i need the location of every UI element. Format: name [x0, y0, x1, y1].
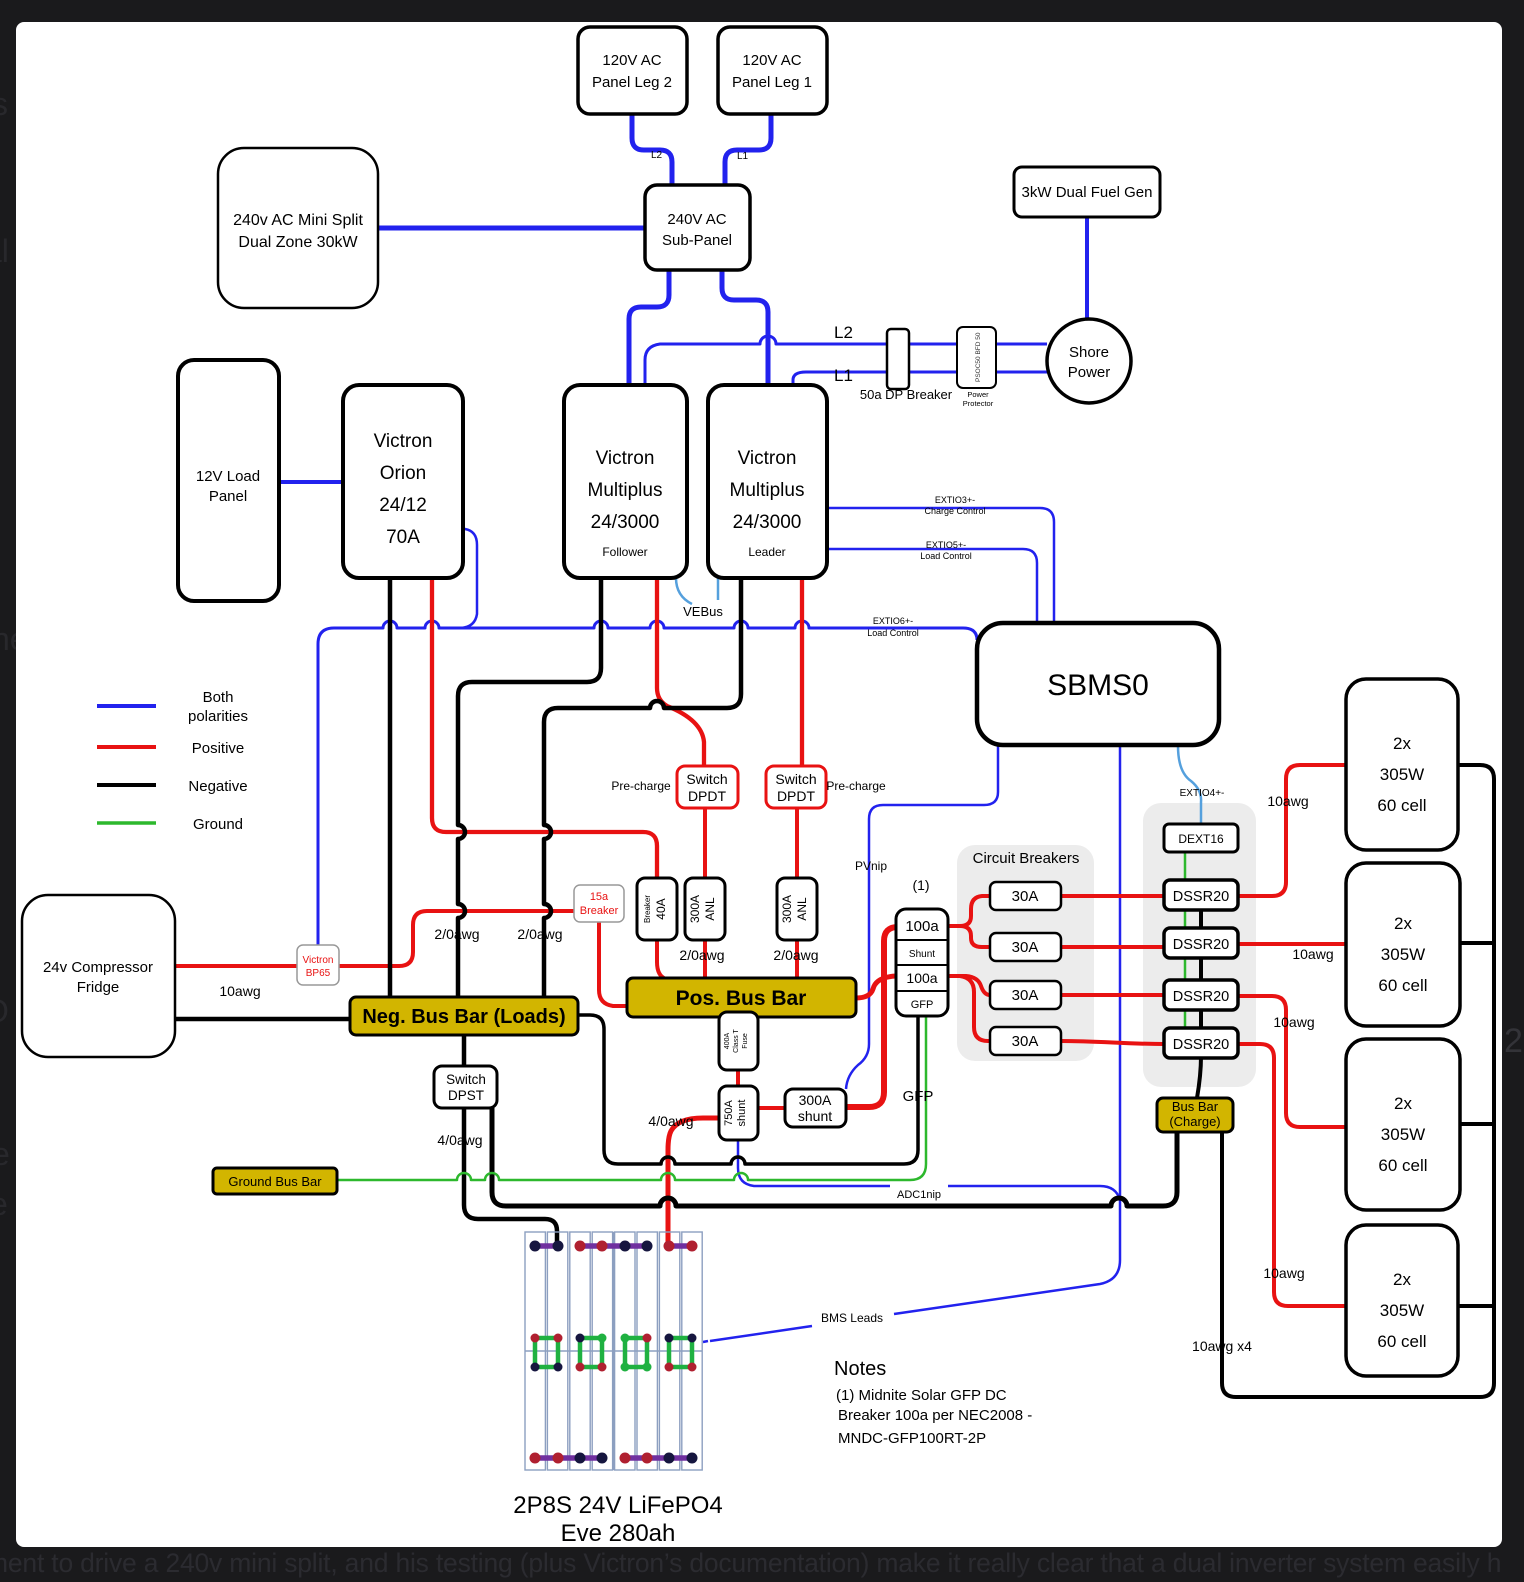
- wire switch DPDT 2 to 300A ANL 2: [795, 808, 799, 878]
- svg-text:Load Control: Load Control: [867, 628, 919, 638]
- wire Orion negative to Neg bus bar: [388, 578, 393, 997]
- svg-text:240v AC Mini Split: 240v AC Mini Split: [233, 212, 363, 229]
- wire Leader negative to Neg bus bar: [544, 578, 741, 997]
- svg-text:DPST: DPST: [448, 1088, 484, 1103]
- svg-text:100a: 100a: [906, 970, 937, 986]
- wire Neg bus bar to switch DPST: [462, 1035, 467, 1066]
- svg-text:L2: L2: [834, 323, 853, 342]
- box 300A shunt: [785, 1089, 846, 1127]
- svg-text:Panel Leg 2: Panel Leg 2: [592, 74, 672, 91]
- svg-text:DPDT: DPDT: [777, 788, 816, 804]
- wire DSSR20 2 to panel 2: [1238, 942, 1346, 946]
- box Ground Bus Bar: [213, 1168, 337, 1194]
- svg-text:24v Compressor: 24v Compressor: [43, 959, 153, 976]
- svg-text:EXTIO4+-: EXTIO4+-: [1180, 788, 1225, 799]
- svg-text:Eve 280ah: Eve 280ah: [561, 1520, 676, 1547]
- svg-text:EXTIO3+-: EXTIO3+-: [935, 495, 975, 505]
- svg-text:GFP: GFP: [911, 999, 934, 1011]
- box solar panel 3: [1346, 1039, 1460, 1210]
- box 24v Compressor Fridge: [22, 895, 175, 1057]
- wire Pos bus bar to 100a battery input: [856, 976, 896, 998]
- svg-text:MNDC-GFP100RT-2P: MNDC-GFP100RT-2P: [838, 1430, 986, 1447]
- svg-text:2x: 2x: [1393, 734, 1411, 753]
- box 12V Load Panel: [178, 360, 279, 601]
- wire switch DPDT 1 to 300A ANL 1: [703, 808, 707, 878]
- box switch DPST: [434, 1066, 497, 1108]
- svg-text:BMS Leads: BMS Leads: [821, 1311, 883, 1325]
- svg-text:400A: 400A: [724, 1033, 731, 1050]
- wire switch DPST to charge bus bar (battery negative charge path): [492, 1108, 1177, 1206]
- wire 750A shunt to battery positive: [668, 1118, 719, 1245]
- svg-text:DSSR20: DSSR20: [1173, 937, 1229, 953]
- box 15a Breaker: [574, 885, 624, 922]
- svg-text:Fuse: Fuse: [742, 1033, 749, 1049]
- wire L1 shore line to Leader: [793, 372, 1047, 385]
- wire 40A breaker to Pos bus bar: [657, 940, 668, 984]
- box 120V AC Panel Leg 2: [578, 27, 687, 114]
- svg-text:Positive: Positive: [192, 740, 245, 757]
- wire switch DPST to battery negative: [464, 1108, 557, 1246]
- battery terminal dots: [530, 1241, 698, 1464]
- svg-text:al: al: [0, 233, 9, 269]
- svg-text:240V AC: 240V AC: [667, 211, 726, 228]
- battery 2P8S cell grid: [525, 1232, 702, 1470]
- svg-text:DSSR20: DSSR20: [1173, 1037, 1229, 1053]
- svg-text:60 cell: 60 cell: [1378, 976, 1427, 995]
- box Power Protector: [957, 327, 996, 388]
- svg-text:100a: 100a: [905, 918, 939, 935]
- svg-text:2/0awg: 2/0awg: [679, 947, 724, 963]
- wire Orion positive to 40A breaker: [432, 578, 657, 878]
- svg-text:30A: 30A: [1012, 987, 1039, 1004]
- svg-text:Switch: Switch: [446, 1072, 486, 1087]
- svg-text:300A: 300A: [780, 895, 794, 923]
- wire EXTIO4 to DEXT16 (light blue): [1178, 746, 1201, 824]
- svg-text:BP65: BP65: [306, 968, 331, 979]
- box 100a shunt 100a GFP column: [896, 909, 948, 1016]
- box DSSR20 1: [1164, 880, 1238, 910]
- svg-text:Pre-charge: Pre-charge: [611, 779, 671, 793]
- svg-text:Multiplus: Multiplus: [588, 480, 663, 501]
- svg-text:Victron: Victron: [374, 431, 433, 452]
- svg-text:Breaker: Breaker: [580, 905, 619, 917]
- svg-text:GFP: GFP: [903, 1088, 934, 1105]
- svg-text:DSSR20: DSSR20: [1173, 889, 1229, 905]
- svg-text:Circuit Breakers: Circuit Breakers: [973, 850, 1080, 867]
- svg-text:Victron: Victron: [596, 448, 655, 469]
- wire 30A 3 to DSSR20 3: [1061, 993, 1164, 997]
- wire charge bus bar to solar panel negatives: [1222, 765, 1494, 1397]
- svg-text:ADC1nip: ADC1nip: [897, 1189, 941, 1201]
- svg-text:Power: Power: [1068, 364, 1111, 381]
- svg-text:10awg: 10awg: [1263, 1265, 1304, 1281]
- svg-text:4/0awg: 4/0awg: [648, 1113, 693, 1129]
- wire Neg bus bar to GFP breaker: [578, 1014, 918, 1164]
- wire 100a battery to 30A breaker 3: [948, 976, 990, 995]
- svg-text:120V AC: 120V AC: [602, 52, 661, 69]
- wire VEBus link a: [676, 578, 692, 604]
- svg-text:Load Control: Load Control: [920, 551, 972, 561]
- box switch DPDT 1: [677, 766, 738, 808]
- wire fridge positive to BP65: [175, 964, 297, 968]
- wire 300A ANL 1 to Pos bus bar: [703, 940, 707, 980]
- wire sub-panel to Multiplus Leader AC out: [722, 270, 768, 385]
- svg-text:PVnip: PVnip: [855, 859, 887, 873]
- svg-text:PSOC50 BFD 50: PSOC50 BFD 50: [975, 332, 982, 382]
- svg-text:Switch: Switch: [686, 771, 727, 787]
- wire DSSR20 3 to panel 3: [1238, 996, 1346, 1127]
- svg-text:Fridge: Fridge: [77, 979, 120, 996]
- svg-text:10awg x4: 10awg x4: [1192, 1338, 1252, 1354]
- box DSSR20 4: [1164, 1028, 1238, 1058]
- svg-text:305W: 305W: [1381, 945, 1425, 964]
- svg-text:Victron: Victron: [303, 955, 334, 966]
- svg-text:(1): (1): [912, 877, 929, 893]
- svg-text:30A: 30A: [1012, 939, 1039, 956]
- box 30A breaker 1: [990, 882, 1061, 910]
- wire 30A 4 to DSSR20 4: [1061, 1041, 1164, 1044]
- box 750A shunt: [719, 1086, 758, 1140]
- svg-text:24/3000: 24/3000: [591, 512, 660, 533]
- battery bottom bus links (purple): [535, 1455, 692, 1461]
- wire generator to shore power: [1085, 217, 1089, 319]
- svg-text:2x: 2x: [1394, 914, 1412, 933]
- svg-text:shunt: shunt: [798, 1108, 832, 1124]
- svg-text:Class T: Class T: [733, 1028, 740, 1052]
- wire 300A ANL 2 to Pos bus bar: [795, 940, 799, 980]
- wire 12V load panel to Orion: [279, 480, 343, 484]
- svg-text:10awg: 10awg: [1273, 1014, 1314, 1030]
- battery top bus links (purple): [535, 1243, 692, 1249]
- box Bus Bar (Charge): [1157, 1098, 1233, 1132]
- svg-text:Charge Control: Charge Control: [924, 506, 985, 516]
- svg-text:2x: 2x: [1393, 1270, 1411, 1289]
- box 3kW Dual Fuel Gen: [1014, 167, 1160, 217]
- svg-text:300A: 300A: [799, 1092, 832, 1108]
- svg-text:DEXT16: DEXT16: [1178, 832, 1224, 846]
- svg-text:EXTIO5+-: EXTIO5+-: [926, 540, 966, 550]
- svg-text:2/0awg: 2/0awg: [773, 947, 818, 963]
- svg-text:Power: Power: [967, 390, 989, 399]
- svg-text:Dual Zone 30kW: Dual Zone 30kW: [238, 234, 358, 251]
- svg-text:ANL: ANL: [703, 897, 717, 921]
- svg-text:L1: L1: [834, 366, 853, 385]
- gray panel: DSSR20 group: [1143, 803, 1256, 1087]
- wire 300A shunt to 100a PV input (thick): [846, 927, 898, 1107]
- svg-text:Switch: Switch: [775, 771, 816, 787]
- svg-text:Breaker 100a per NEC2008 -: Breaker 100a per NEC2008 -: [838, 1407, 1032, 1424]
- svg-text:ment to drive a 240v mini spli: ment to drive a 240v mini split, and his…: [0, 1548, 1501, 1578]
- wire PVnip SBMS0 to 300A shunt: [846, 745, 998, 1089]
- svg-text:Protector: Protector: [963, 399, 994, 408]
- box solar panel 4: [1346, 1225, 1458, 1376]
- svg-text:shunt: shunt: [736, 1100, 748, 1127]
- svg-text:DPDT: DPDT: [688, 788, 727, 804]
- svg-text:Pos. Bus Bar: Pos. Bus Bar: [676, 987, 807, 1010]
- box DEXT16: [1164, 824, 1238, 852]
- svg-text:EXTIO6+-: EXTIO6+-: [873, 616, 913, 626]
- box Pos Bus Bar: [627, 978, 856, 1017]
- svg-text:Ground Bus Bar: Ground Bus Bar: [228, 1174, 322, 1189]
- svg-text:2: 2: [1504, 1022, 1523, 1060]
- wire DSSR20 1 to panel 1: [1238, 765, 1346, 896]
- box Victron Orion 24/12 70A: [343, 385, 463, 578]
- box DSSR20 2: [1164, 928, 1238, 958]
- svg-text:Bus Bar: Bus Bar: [1172, 1099, 1219, 1114]
- gray panel: Circuit Breakers group: [957, 845, 1094, 1061]
- svg-text:10awg: 10awg: [219, 983, 260, 999]
- svg-text:O: O: [0, 993, 9, 1029]
- svg-text:2/0awg: 2/0awg: [434, 926, 479, 942]
- svg-text:12V Load: 12V Load: [196, 468, 260, 485]
- legend line positive: [97, 745, 156, 749]
- svg-text:30A: 30A: [1012, 1033, 1039, 1050]
- wire EXTIO5 load control: [827, 549, 1037, 623]
- svg-text:2P8S 24V LiFePO4: 2P8S 24V LiFePO4: [513, 1492, 722, 1519]
- wire EXTIO3 charge control: [827, 508, 1054, 623]
- svg-text:50a DP Breaker: 50a DP Breaker: [860, 387, 953, 402]
- wire ground bus bar to GFP (green): [337, 1014, 926, 1180]
- wire 100a battery to 30A breaker 4: [948, 976, 990, 1041]
- wire SBMS0 main blue vertical + BMS leads diagonal: [703, 745, 1120, 1342]
- svg-text:s: s: [0, 86, 8, 122]
- wire Leader positive to switch DPDT 2: [800, 578, 804, 766]
- wire EXTIO6 load control bus (BP65 riser + horizontal to SBMS0): [318, 621, 977, 945]
- box 120V AC Panel Leg 1: [718, 27, 827, 114]
- box 400A Class T Fuse: [719, 1012, 758, 1070]
- svg-text:polarities: polarities: [188, 708, 248, 725]
- svg-text:10awg: 10awg: [1267, 793, 1308, 809]
- svg-text:305W: 305W: [1380, 765, 1424, 784]
- svg-text:e: e: [0, 1186, 8, 1222]
- box 30A breaker 4: [990, 1027, 1061, 1055]
- svg-text:Victron: Victron: [738, 448, 797, 469]
- svg-text:2/0awg: 2/0awg: [517, 926, 562, 942]
- wire DSSR20 4 to panel 4: [1238, 1044, 1346, 1306]
- box 300A ANL 1: [685, 878, 725, 940]
- svg-text:SBMS0: SBMS0: [1047, 669, 1149, 702]
- wire 30A 2 to DSSR20 2: [1061, 945, 1164, 949]
- svg-text:e: e: [0, 1136, 10, 1172]
- svg-text:Ground: Ground: [193, 816, 243, 833]
- wire fridge negative to Neg bus bar: [175, 1017, 350, 1022]
- faint background glyphs left edge: [0, 86, 28, 1222]
- legend line both polarities: [97, 704, 156, 708]
- box 30A breaker 3: [990, 981, 1061, 1009]
- legend line ground: [97, 821, 156, 825]
- svg-text:2x: 2x: [1394, 1094, 1412, 1113]
- wire Follower positive to switch DPDT 1: [657, 578, 704, 766]
- svg-text:4/0awg: 4/0awg: [437, 1132, 482, 1148]
- legend line negative: [97, 783, 156, 787]
- box 240V AC Sub-Panel: [645, 185, 750, 270]
- svg-text:305W: 305W: [1381, 1125, 1425, 1144]
- wire mini-split to sub-panel: [378, 226, 645, 231]
- box 30A breaker 2: [990, 933, 1061, 961]
- wire 30A 1 to DSSR20 1: [1061, 894, 1164, 898]
- svg-text:70A: 70A: [386, 527, 420, 548]
- box Neg Bus Bar (Loads): [350, 997, 578, 1035]
- svg-text:120V AC: 120V AC: [742, 52, 801, 69]
- svg-text:15a: 15a: [590, 891, 609, 903]
- wire Follower negative to Neg bus bar: [458, 578, 601, 997]
- wire Orion blue branch to EXTIO6 bus: [461, 529, 477, 628]
- wire 100a PV to 30A breaker 1: [948, 896, 990, 926]
- box 40A breaker: [637, 878, 677, 940]
- svg-text:30A: 30A: [1012, 888, 1039, 905]
- svg-text:305W: 305W: [1380, 1301, 1424, 1320]
- svg-text:(Charge): (Charge): [1169, 1114, 1220, 1129]
- box 50a DP Breaker: [887, 329, 909, 389]
- svg-text:Neg. Bus Bar (Loads): Neg. Bus Bar (Loads): [362, 1006, 565, 1028]
- wire L2 shore line to Follower: [645, 336, 1047, 385]
- battery balance link squares (green): [535, 1338, 692, 1367]
- svg-text:Multiplus: Multiplus: [730, 480, 805, 501]
- box switch DPDT 2: [766, 766, 826, 808]
- svg-text:24/3000: 24/3000: [733, 512, 802, 533]
- svg-text:3kW Dual Fuel Gen: 3kW Dual Fuel Gen: [1022, 184, 1153, 201]
- svg-text:DSSR20: DSSR20: [1173, 989, 1229, 1005]
- wire sub-panel to Multiplus Follower AC out: [629, 270, 669, 385]
- svg-text:60 cell: 60 cell: [1378, 1156, 1427, 1175]
- svg-text:40A: 40A: [654, 898, 668, 919]
- box solar panel 2: [1346, 863, 1460, 1026]
- svg-text:Pre-charge: Pre-charge: [826, 779, 886, 793]
- box Victron Multiplus Follower: [564, 385, 687, 578]
- wire AC leg1 to sub-panel: [725, 114, 771, 185]
- svg-text:Notes: Notes: [834, 1358, 886, 1380]
- wire DEXT16 green chain: [1184, 852, 1187, 1028]
- svg-text:(1) Midnite Solar GFP DC: (1) Midnite Solar GFP DC: [836, 1387, 1007, 1404]
- box SBMS0: [977, 623, 1219, 745]
- box 240v AC Mini Split: [218, 148, 378, 308]
- svg-text:Both: Both: [203, 689, 234, 706]
- wire 750A shunt to 300A shunt: [758, 1106, 785, 1110]
- box Victron BP65: [297, 945, 339, 985]
- svg-text:Leader: Leader: [748, 545, 785, 559]
- wire DSSR20 chain negatives: [1197, 910, 1201, 1098]
- box DSSR20 3: [1164, 980, 1238, 1010]
- svg-text:Sub-Panel: Sub-Panel: [662, 232, 732, 249]
- svg-text:Panel: Panel: [209, 488, 247, 505]
- svg-text:L2: L2: [651, 150, 663, 161]
- wire 100a PV to 30A breaker 2: [948, 926, 990, 947]
- wire VEBus link b: [717, 578, 720, 600]
- svg-text:Panel Leg 1: Panel Leg 1: [732, 74, 812, 91]
- svg-text:Negative: Negative: [188, 778, 247, 795]
- svg-text:Shore: Shore: [1069, 344, 1109, 361]
- svg-text:60 cell: 60 cell: [1377, 1332, 1426, 1351]
- shore power circle: [1047, 319, 1131, 403]
- svg-text:Follower: Follower: [602, 545, 647, 559]
- svg-text:Breaker: Breaker: [643, 895, 652, 923]
- wire Pos bus bar to 400A fuse: [736, 1012, 740, 1086]
- svg-text:VEBus: VEBus: [683, 604, 723, 619]
- svg-text:10awg: 10awg: [1292, 946, 1333, 962]
- wire AC leg2 to sub-panel: [632, 114, 672, 185]
- svg-text:Orion: Orion: [380, 463, 426, 484]
- svg-text:24/12: 24/12: [379, 495, 427, 516]
- svg-text:Shunt: Shunt: [909, 949, 935, 960]
- svg-text:750A: 750A: [723, 1099, 735, 1125]
- box Victron Multiplus Leader: [708, 385, 827, 578]
- svg-text:ANL: ANL: [795, 897, 809, 921]
- wire BP65 to 15a breaker: [339, 911, 574, 966]
- svg-text:60 cell: 60 cell: [1377, 796, 1426, 815]
- wire ADC1nip from 750A shunt: [738, 1140, 1120, 1200]
- svg-text:300A: 300A: [688, 895, 702, 923]
- svg-text:L1: L1: [737, 151, 749, 162]
- box 300A ANL 2: [777, 878, 817, 940]
- box solar panel 1: [1346, 679, 1458, 850]
- wire 15a breaker to Pos bus bar: [599, 922, 627, 1006]
